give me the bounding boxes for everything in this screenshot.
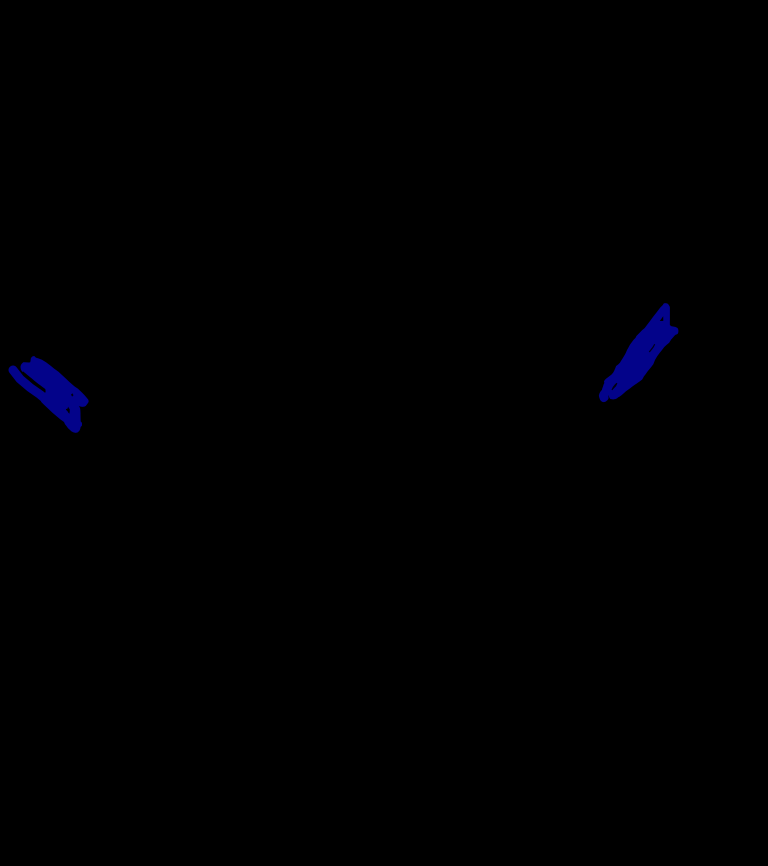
- pen stroke S1a (left blob: thin lower-left stroke): [13, 370, 54, 406]
- bottom dark gap of stroke S1: [66, 407, 70, 414]
- pen scribble stroke S2 (right, blue ink blob): [599, 303, 679, 402]
- lower sliver gap of stroke S2: [612, 383, 618, 390]
- pen stroke S1b (left blob: main mass): [21, 356, 89, 433]
- tiny gap of stroke S1: [71, 393, 74, 396]
- middle sliver gap of stroke S2: [649, 344, 655, 353]
- top triangular gap of stroke S2: [660, 316, 664, 321]
